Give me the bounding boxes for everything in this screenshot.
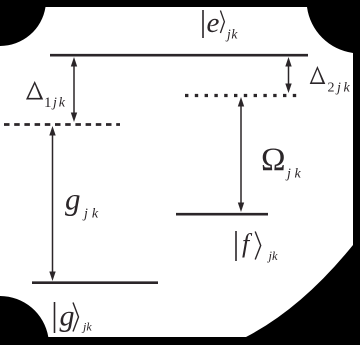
svg-text:2: 2	[328, 81, 335, 96]
svg-text:f: f	[242, 229, 253, 258]
svg-text:jk: jk	[285, 167, 304, 182]
svg-text:jk: jk	[267, 249, 278, 263]
svg-text:g: g	[65, 182, 81, 217]
svg-text:jk: jk	[51, 96, 67, 111]
svg-text:Ω: Ω	[261, 142, 286, 178]
svg-text:jk: jk	[225, 27, 238, 42]
svg-text:g: g	[60, 300, 75, 333]
svg-text:jk: jk	[335, 81, 352, 96]
svg-text:1: 1	[44, 95, 52, 111]
svg-text:e: e	[207, 7, 220, 39]
svg-text:jk: jk	[82, 207, 102, 222]
svg-text:jk: jk	[81, 320, 92, 334]
